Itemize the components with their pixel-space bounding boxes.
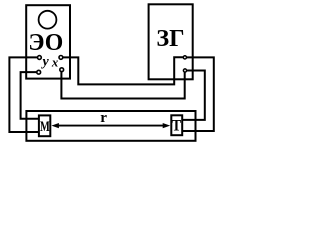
- svg-text:ЗГ: ЗГ: [156, 25, 184, 52]
- terminal gnd-right on EO: [60, 68, 64, 72]
- svg-text:М: М: [40, 119, 50, 135]
- svg-text:Т: Т: [172, 117, 182, 134]
- wire Wx: EO x-terminal to ZG T1: [62, 57, 184, 84]
- microphone box M: [39, 115, 50, 136]
- telephone box T: [171, 115, 182, 135]
- terminal gnd-left on EO: [37, 70, 41, 74]
- svg-text:r: r: [100, 109, 107, 126]
- wire WB: ZG T2 to T box: [182, 71, 205, 120]
- wire Wg: EO ground to ZG T2: [61, 71, 184, 99]
- svg-text:y: y: [40, 55, 49, 70]
- wire W1: EO y-terminal to M: [9, 57, 39, 132]
- generator box ZG: [149, 4, 193, 79]
- tube rectangle: [26, 111, 195, 141]
- wire W2: EO ground terminal to M: [21, 72, 39, 119]
- oscilloscope screen circle: [39, 11, 57, 29]
- distance arrow r: [55, 125, 167, 127]
- terminal y on EO: [38, 56, 42, 60]
- terminal x on EO: [59, 56, 63, 60]
- oscilloscope box EO: [26, 5, 70, 78]
- terminal T1 on ZG: [183, 56, 186, 59]
- svg-text:x: x: [51, 55, 59, 69]
- svg-text:ЭО: ЭО: [28, 30, 63, 56]
- wire WA: ZG T1 to T box: [182, 57, 214, 131]
- terminal T2 on ZG: [183, 69, 186, 72]
